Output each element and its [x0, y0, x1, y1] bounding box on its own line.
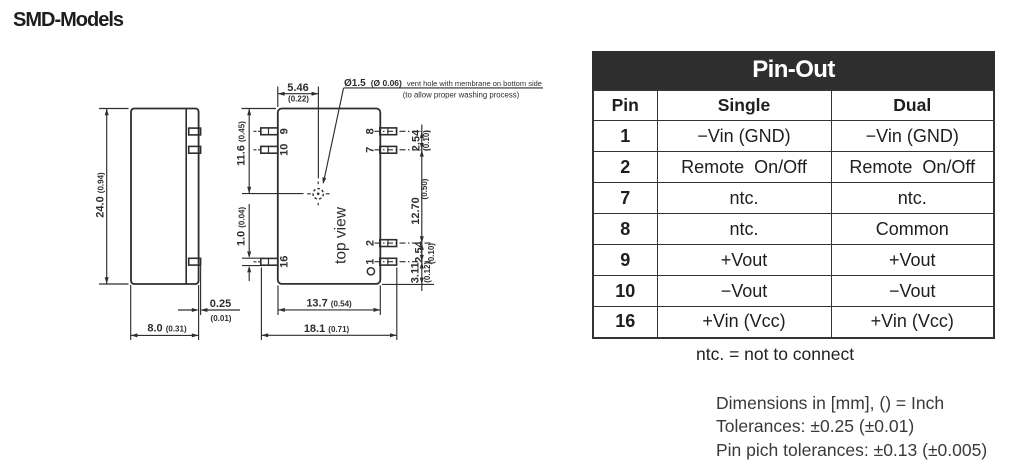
vent hole	[307, 181, 329, 205]
title SMD-Models	[13, 9, 123, 32]
dimension 13.7 (0.54)	[278, 286, 380, 316]
svg-text:2: 2	[365, 240, 377, 246]
dimension 5.46 (0.22)	[278, 82, 319, 107]
svg-text:7: 7	[365, 147, 377, 153]
svg-text:3.11: 3.11	[409, 262, 421, 283]
top view pin 8	[375, 128, 432, 135]
table row pin 8	[593, 214, 994, 245]
svg-text:18.1 (0.71): 18.1 (0.71)	[304, 323, 350, 335]
svg-text:top view: top view	[333, 206, 350, 264]
side view pin row A	[189, 128, 201, 135]
top view body	[278, 109, 381, 284]
top view pin 9	[254, 128, 278, 135]
svg-text:(0.22): (0.22)	[288, 94, 309, 103]
dimension 0.25 (0.01)	[178, 266, 240, 340]
svg-text:2.54: 2.54	[414, 240, 426, 262]
note ntc	[696, 344, 854, 365]
side view body	[131, 109, 199, 285]
top view pin 2	[375, 240, 432, 247]
table row pin 9	[593, 245, 994, 276]
svg-text:(0.50): (0.50)	[420, 178, 429, 199]
header bar Pin-Out	[592, 51, 995, 89]
svg-text:8: 8	[365, 128, 377, 134]
right dimension chain line	[382, 125, 434, 292]
mechanical drawing	[0, 0, 580, 471]
svg-text:16: 16	[279, 256, 291, 268]
dimension 8.0 (0.31)	[131, 285, 199, 340]
svg-text:11.6 (0.45): 11.6 (0.45)	[236, 121, 248, 166]
side view pin row C	[189, 258, 201, 265]
svg-text:(0.01): (0.01)	[211, 314, 232, 323]
top view pin 10	[254, 146, 278, 153]
svg-text:24.0 (0.94): 24.0 (0.94)	[95, 172, 107, 218]
svg-text:1: 1	[365, 259, 377, 265]
svg-text:2.54: 2.54	[410, 129, 422, 151]
svg-text:5.46: 5.46	[287, 82, 308, 94]
table row pin 16	[593, 307, 994, 338]
table row pin 7	[593, 183, 994, 214]
table row pin 10	[593, 276, 994, 307]
dimension 1.0 (0.04)	[236, 204, 262, 281]
svg-text:(0.10): (0.10)	[422, 130, 431, 151]
svg-text:13.7 (0.54): 13.7 (0.54)	[306, 298, 352, 310]
svg-text:(to allow proper washing proce: (to allow proper washing process)	[403, 91, 520, 100]
svg-text:8.0 (0.31): 8.0 (0.31)	[147, 323, 187, 335]
svg-text:(0.12): (0.12)	[423, 262, 432, 283]
dimension 18.1 (0.71)	[261, 268, 396, 341]
dimension 24.0 (0.94)	[95, 109, 129, 285]
dimension 2.54 (0.10) bottom	[414, 240, 437, 264]
top view pin 16	[254, 258, 278, 265]
svg-text:10: 10	[279, 144, 291, 156]
Pin-Out table	[592, 51, 995, 339]
table row pin 2	[593, 152, 994, 183]
side view pin row B	[189, 146, 201, 153]
svg-text:12.70: 12.70	[410, 197, 422, 225]
vent hole leader	[321, 88, 543, 185]
pin 1 indicator circle	[367, 268, 374, 275]
svg-text:9: 9	[279, 128, 291, 134]
svg-text:(0.10): (0.10)	[427, 243, 436, 264]
dimension 2.54 (0.10) top	[410, 129, 431, 151]
hole vertical centerline	[317, 87, 319, 179]
table row pin 1	[593, 121, 994, 152]
table header row	[593, 90, 994, 121]
svg-text:0.25: 0.25	[210, 298, 231, 310]
notes dimensions	[716, 392, 987, 463]
dimension 11.6 (0.45)	[236, 109, 277, 194]
top view pin 7	[375, 146, 432, 153]
top view pin 1	[375, 258, 432, 265]
dimension 3.11 (0.12)	[409, 262, 432, 284]
svg-text:Ø1.5(Ø 0.06)vent hole with mem: Ø1.5(Ø 0.06)vent hole with membrane on b…	[344, 78, 542, 89]
svg-text:1.0 (0.04): 1.0 (0.04)	[236, 207, 248, 247]
hole horizontal centerline	[242, 193, 304, 195]
